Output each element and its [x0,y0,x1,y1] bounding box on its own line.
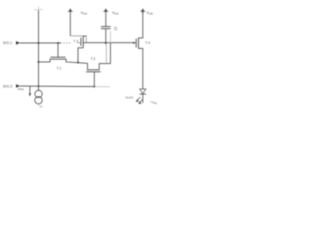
svg-text:Vdd: Vdd [112,11,119,16]
svg-text:Ibias: Ibias [18,87,25,91]
svg-text:I b: I b [39,105,43,109]
svg-text:SIG.2: SIG.2 [3,84,12,88]
svg-text:T 4: T 4 [145,41,150,45]
svg-text:Vdd: Vdd [147,11,154,16]
svg-text:C: C [114,26,117,31]
svg-text:Vdd: Vdd [81,11,88,16]
svg-text:T 3: T 3 [73,39,78,43]
svg-text:OLED: OLED [125,95,133,99]
svg-text:T 2: T 2 [91,57,96,61]
svg-text:SIG.1: SIG.1 [3,41,12,45]
svg-text:T 1: T 1 [57,67,62,71]
